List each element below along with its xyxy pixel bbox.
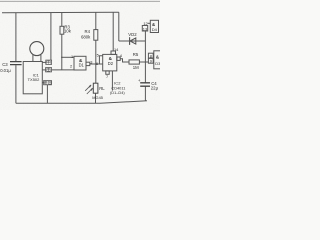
wire top supply rail (2, 11, 119, 14)
tag shield net (44, 81, 52, 85)
wire right corner drop to VD2 (118, 12, 120, 41)
svg-text:9: 9 (150, 59, 152, 64)
NAND gate D4 box (150, 20, 158, 32)
svg-text:TX502: TX502 (28, 77, 41, 82)
wire R4 branch upper (95, 12, 97, 29)
junction node A dot (95, 63, 97, 65)
wire node B vertical to C4 (144, 31, 146, 101)
junction node B dot (145, 61, 147, 63)
svg-text:D2: D2 (108, 61, 114, 66)
pin box 7 on D2 bottom (106, 71, 109, 74)
wire shield stub (42, 82, 43, 84)
svg-text:D3: D3 (155, 61, 160, 66)
wire left branch lower (C3 to bottom rail) (15, 65, 17, 103)
resistor R5 (129, 60, 139, 64)
svg-text:VD2: VD2 (128, 32, 137, 37)
svg-text:D1: D1 (79, 62, 85, 67)
pin box 14 on D2 top (111, 51, 116, 54)
pin box 3 on D1 right (86, 62, 90, 65)
wire R4 to node A (95, 40, 97, 64)
wire R3 branch upper (61, 13, 63, 27)
wire R3 down to D1 inputs (61, 34, 63, 70)
NAND gate D1 box (74, 56, 86, 70)
resistor R3 (60, 26, 64, 34)
IC1 TX502 box (23, 62, 42, 94)
wire pin12 stub (148, 22, 151, 24)
tag white lead (46, 68, 52, 72)
wire RG to bottom rail (95, 93, 97, 103)
svg-text:(D1–D4): (D1–D4) (110, 90, 125, 95)
wire VD2 horizontal (119, 40, 146, 42)
pin box 9 on D3 (148, 58, 153, 63)
wire node A to photoresistor RG (95, 64, 97, 83)
svg-text:10k: 10k (64, 29, 72, 34)
svg-text:0.01μ: 0.01μ (0, 68, 11, 73)
svg-text:13: 13 (143, 26, 147, 31)
wire shield to bottom rail (46, 85, 48, 104)
hanzi white (tag) (47, 68, 51, 71)
wire left branch upper (to C3) (15, 13, 17, 61)
pin box 8 on D3 (148, 53, 153, 58)
svg-text:3: 3 (90, 60, 92, 65)
junction R3/D1 pin1 dot (61, 57, 63, 59)
svg-text:7: 7 (106, 74, 108, 79)
wire D2 pin5 tie stub (99, 56, 102, 64)
pin box 4 on D2 right (117, 57, 120, 60)
svg-text:680k: 680k (81, 34, 91, 39)
photoresistor RG body (93, 83, 98, 93)
svg-text:1: 1 (71, 54, 73, 59)
hanzi red (tag) (47, 61, 51, 64)
wire bottom ground rail (16, 101, 147, 104)
wire R5 to node B (139, 61, 148, 63)
wire D1 pin1 horizontal (62, 56, 74, 58)
svg-text:2: 2 (70, 64, 72, 69)
wire white lead stub (42, 69, 45, 71)
NAND gate D3 box (154, 51, 161, 69)
svg-text:5: 5 (97, 52, 99, 57)
microphone head circle (30, 42, 44, 56)
tag red lead (46, 60, 52, 64)
svg-text:1M: 1M (133, 65, 139, 70)
capacitor C4 plates (140, 83, 150, 86)
wire D1 output to D2 inputs (90, 63, 103, 65)
pin box 13 on D4 (142, 26, 147, 32)
svg-text:R5: R5 (133, 52, 139, 57)
microphone neck (33, 55, 41, 62)
svg-text:D4: D4 (152, 27, 158, 32)
hanzi shield-net (tag) (44, 81, 51, 84)
svg-text:6: 6 (96, 61, 98, 66)
page edge line (top crop artifact) (0, 0, 160, 2)
svg-text:22μ: 22μ (151, 85, 159, 90)
svg-text:MG45: MG45 (92, 95, 103, 100)
wire D2 pin4 to R5 (120, 59, 129, 62)
wire IC2 leader from D2 (111, 71, 113, 91)
wire red lead stub (42, 61, 45, 63)
resistor R4 (94, 30, 98, 41)
wire white lead / D1 pin2 (52, 69, 75, 71)
svg-text:RL: RL (99, 86, 105, 91)
diode VD2 (130, 37, 136, 45)
svg-text:+: + (138, 78, 141, 83)
wire D2 pin14 drop from rail (112, 12, 114, 51)
svg-text:12: 12 (143, 21, 147, 26)
svg-text:C3: C3 (2, 62, 8, 67)
NAND gate D2 box (103, 54, 117, 71)
photoresistor RG light arrows (85, 85, 93, 94)
capacitor C3 (10, 62, 22, 65)
wire mic red lead to rail (50, 13, 52, 61)
